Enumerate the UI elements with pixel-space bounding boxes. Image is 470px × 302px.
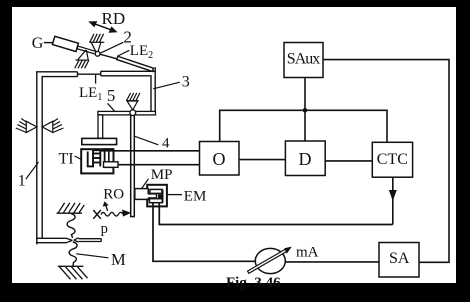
EM slot A [150, 189, 162, 193]
wire SAux down [304, 78, 306, 141]
EM slot C [149, 199, 162, 203]
left frame 1 verticals [37, 72, 42, 245]
box SA [379, 243, 419, 278]
bus wire horizontal [220, 110, 387, 142]
leader M [76, 254, 108, 258]
spring lower M [69, 242, 77, 266]
lamp G body [52, 36, 78, 51]
wire D to CTC [325, 160, 372, 162]
leader 2 [100, 42, 123, 53]
electromagnet EM box [147, 185, 167, 207]
heater comb [87, 149, 101, 166]
wire O to D [239, 159, 285, 161]
wire SAux right loop to SA [323, 60, 449, 263]
light beam lever [77, 46, 98, 55]
svg-text:p: p [101, 221, 108, 237]
pivot circle 2 [95, 51, 100, 56]
leader LE2 [118, 50, 130, 56]
meter mA circle [255, 248, 285, 273]
wire TI to O bottom [118, 164, 200, 166]
RO wavy arrow [101, 211, 129, 217]
lower ground hatch [58, 266, 88, 279]
frame bottom tube [36, 238, 66, 242]
spring upper [67, 213, 75, 237]
svg-text:SAux: SAux [287, 50, 321, 67]
lever 5 bar [98, 111, 156, 115]
svg-text:MP: MP [151, 167, 173, 183]
svg-text:RO: RO [103, 187, 124, 203]
svg-text:CTC: CTC [377, 151, 408, 168]
leader 4 [135, 136, 159, 145]
svg-text:Fig. 3.46: Fig. 3.46 [226, 275, 281, 291]
svg-text:5: 5 [107, 86, 115, 105]
armature MP plate [135, 189, 148, 200]
lever pivot hatch [126, 93, 140, 101]
junction dot [303, 108, 308, 113]
box O [200, 142, 240, 176]
svg-text:mA: mA [296, 245, 319, 261]
leader 3 [153, 82, 180, 89]
frame tube top-right segment [101, 71, 156, 76]
upper ground hatch [57, 203, 85, 213]
T-foot bar [82, 138, 117, 144]
lever pivot triangle [127, 101, 138, 110]
MP slot B channel [137, 194, 157, 198]
svg-text:RD: RD [102, 9, 126, 28]
mirror LE2 [117, 56, 154, 71]
heater right cell [105, 149, 114, 167]
frame tube top-left segment [36, 72, 77, 77]
junction X hook p [66, 238, 78, 243]
svg-text:TI: TI [59, 151, 74, 168]
wire EM to meter [153, 203, 255, 261]
meter needle [248, 247, 292, 274]
svg-text:4: 4 [162, 136, 170, 152]
box SAux [284, 43, 323, 78]
svg-text:1: 1 [18, 173, 26, 190]
wire TI to O top [101, 150, 200, 152]
RO small arrow [104, 203, 108, 212]
leader 1 [26, 162, 39, 179]
wire CTC down arrow [390, 177, 396, 224]
EM dark core [158, 194, 163, 198]
leader MP [141, 179, 149, 190]
svg-text:O: O [213, 149, 226, 169]
box CTC [372, 142, 412, 177]
frame 3 right verticals [151, 67, 155, 115]
leader 5 [108, 103, 117, 113]
leader TI [75, 156, 88, 163]
leader EM [168, 194, 183, 196]
lower pivot support hatch [75, 50, 89, 68]
leader LE1 tick [95, 74, 97, 83]
box D [285, 141, 325, 176]
TI output bar [104, 162, 119, 168]
rod 4 [130, 116, 135, 217]
lever 5 stem [98, 115, 103, 138]
mirror LE1 line [78, 73, 101, 75]
rod p bar [79, 239, 102, 242]
wire dash from G [44, 42, 53, 44]
upper pivot support hatch [89, 34, 104, 53]
heater TI box [81, 149, 113, 173]
lever pivot circle [130, 110, 136, 116]
svg-text:SA: SA [389, 250, 410, 267]
svg-text:M: M [111, 250, 126, 269]
guide support right triangle [42, 119, 63, 133]
wire meter to SA [285, 261, 379, 263]
svg-text:3: 3 [182, 74, 190, 91]
svg-text:EM: EM [184, 189, 207, 205]
wire EM to CTC return [159, 203, 392, 225]
arrow RD double-headed [90, 22, 116, 32]
guide support left triangle [16, 119, 37, 133]
svg-text:D: D [299, 149, 312, 169]
svg-text:G: G [32, 35, 44, 52]
RO cross mark [93, 210, 101, 219]
